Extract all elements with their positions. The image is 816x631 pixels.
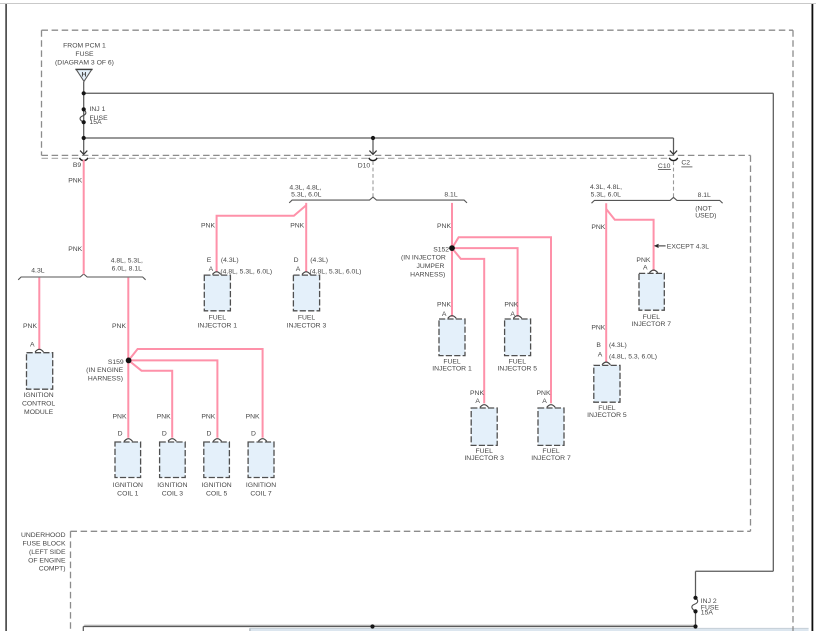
component label FUEL INJECTOR 1 (198, 315, 238, 330)
svg-text:FUEL: FUEL (209, 315, 227, 322)
svg-text:A: A (296, 266, 301, 273)
svg-text:CONTROL: CONTROL (22, 400, 55, 407)
svg-text:FROM PCM 1: FROM PCM 1 (63, 43, 106, 50)
junction dot INJ1 fuse bottom (82, 120, 86, 124)
wire: drop to D10 connector (372, 138, 374, 154)
splice label S152 (IN INJECTOR JUMPER HARNESS) (401, 246, 449, 278)
ignition control module box (27, 353, 53, 390)
svg-text:INJECTOR 1: INJECTOR 1 (198, 322, 238, 329)
pin labels E/A fuel injector 1 (207, 257, 272, 276)
svg-text:PNK: PNK (68, 246, 82, 253)
svg-text:PNK: PNK (504, 301, 518, 308)
page right border line (811, 4, 813, 631)
pin A arc ignition control module (35, 349, 43, 352)
component label IGNITION COIL 5 (201, 482, 231, 498)
svg-text:D: D (118, 431, 123, 438)
svg-text:PNK: PNK (290, 223, 304, 230)
engine label 4.3L 4.8L 5.3L 6.0L (C10 brace) (590, 184, 622, 198)
svg-text:FUEL: FUEL (298, 315, 316, 322)
svg-text:HARNESS): HARNESS) (88, 376, 123, 383)
pin arc fuel injector 1 (212, 272, 220, 275)
component label FUEL INJECTOR 5 (8.1L) (498, 358, 538, 372)
svg-text:H: H (82, 71, 87, 78)
connector C10 arrow (670, 151, 677, 155)
svg-text:A: A (598, 352, 603, 359)
junction dot INJ2 fuse bottom (693, 609, 697, 613)
svg-text:A: A (442, 311, 447, 318)
splice S152 junction dot (449, 245, 455, 251)
ignition coil 1 box (115, 442, 141, 478)
svg-text:FUEL: FUEL (443, 358, 461, 365)
svg-text:D: D (206, 431, 211, 438)
component label IGNITION COIL 3 (157, 482, 187, 498)
label UNDERHOOD FUSE BLOCK (21, 532, 66, 573)
junction dot on bottom bus (370, 624, 374, 628)
svg-text:(LEFT SIDE: (LEFT SIDE (29, 549, 66, 556)
component label FUEL INJECTOR 7 (8.1L) (531, 448, 571, 462)
svg-text:PNK: PNK (112, 323, 126, 330)
splice label S159 (IN ENGINE HARNESS) (86, 359, 124, 383)
wire PNK: S152 to fuel injector 3 (452, 248, 484, 403)
pin label C2 (underlined) (681, 159, 692, 167)
engine label 8.1L (NOT USED) (C10 brace) (695, 192, 716, 219)
label FROM PCM 1 FUSE (DIAGRAM 3 OF 6) (55, 43, 114, 67)
svg-text:FUEL: FUEL (542, 448, 560, 455)
svg-text:COIL 3: COIL 3 (162, 491, 183, 498)
svg-text:B: B (596, 342, 601, 349)
svg-text:COIL 5: COIL 5 (206, 491, 227, 498)
svg-text:PNK: PNK (470, 390, 484, 397)
wire: triangle H down to B9 connector (83, 82, 85, 154)
wire: drop to C10 connector (673, 138, 675, 154)
pin A arc fuel injector 1 (8.1L) (448, 316, 456, 319)
pin A arc fuel injector 3 (8.1L) (480, 405, 488, 408)
svg-text:INJECTOR 3: INJECTOR 3 (287, 322, 327, 329)
svg-text:FUEL: FUEL (598, 405, 616, 412)
wire PNK: S152 to fuel injector 7 (452, 237, 551, 403)
connector C10 socket arc (669, 158, 677, 161)
svg-text:USED): USED) (695, 212, 716, 219)
svg-text:15A: 15A (701, 609, 714, 616)
junction dot D10 tap (371, 136, 375, 140)
svg-text:INJECTOR 5: INJECTOR 5 (587, 412, 627, 419)
wire PNK: C10 brace down to fuel injector 5 (605, 203, 607, 362)
svg-text:(4.8L, 5.3L, 6.0L): (4.8L, 5.3L, 6.0L) (220, 269, 272, 276)
wire: INJ 2 fuse to bottom bus (695, 611, 697, 626)
svg-text:FUSE: FUSE (75, 51, 94, 58)
svg-text:PNK: PNK (437, 223, 451, 230)
junction dot INJ1 fuse top (82, 107, 86, 111)
svg-text:(4.3L): (4.3L) (221, 257, 239, 264)
node D10 dashed drop wire (372, 161, 374, 197)
svg-text:PNK: PNK (537, 390, 551, 397)
svg-text:PNK: PNK (591, 224, 605, 231)
wire PNK: D10 brace down to fuel injector 3 (305, 203, 307, 272)
page left border line (5, 4, 7, 631)
brace: C10 engine split (592, 197, 723, 203)
svg-text:(4.8L, 5.3L, 6.0L): (4.8L, 5.3L, 6.0L) (310, 269, 362, 276)
fuel injector 1 box (8.1L) (439, 319, 465, 356)
fuel injector 1 box (4.3-6.0L) (204, 275, 230, 311)
component label FUEL INJECTOR 5 (C10) (587, 405, 627, 419)
svg-text:PNK: PNK (636, 257, 650, 264)
pin A arc fuel injector 5 (8.1L) (513, 316, 521, 319)
fuse INJ 1 15A element (80, 109, 86, 122)
svg-text:INJECTOR 5: INJECTOR 5 (498, 365, 538, 372)
pin D arc ignition coil 5 (213, 439, 221, 442)
pin arc fuel injector 5 (C10 group) (602, 362, 610, 365)
component label IGNITION CONTROL MODULE (22, 392, 55, 416)
component label FUEL INJECTOR 3 (287, 315, 327, 330)
svg-text:FUEL: FUEL (476, 448, 494, 455)
pin label C10 (underlined) (658, 163, 671, 170)
svg-text:4.8L, 5.3L,: 4.8L, 5.3L, (111, 257, 143, 264)
svg-text:MODULE: MODULE (24, 409, 54, 416)
pin D arc ignition coil 1 (124, 439, 132, 442)
svg-text:INJECTOR 3: INJECTOR 3 (464, 455, 504, 462)
svg-text:COIL 7: COIL 7 (250, 491, 271, 498)
component label FUEL INJECTOR 1 (8.1L) (432, 358, 472, 372)
splice S159 junction dot (126, 358, 132, 364)
svg-text:A: A (475, 398, 480, 405)
svg-text:(4.3L): (4.3L) (310, 257, 328, 264)
svg-text:E: E (207, 257, 212, 264)
svg-text:EXCEPT 4.3L: EXCEPT 4.3L (667, 244, 709, 251)
svg-text:A: A (30, 342, 35, 349)
wire: second horizontal bus at y=138 (84, 137, 674, 139)
brace: B9 engine split (18, 274, 145, 280)
svg-text:INJECTOR 1: INJECTOR 1 (432, 365, 472, 372)
svg-text:COMPT): COMPT) (39, 566, 66, 573)
svg-text:D: D (294, 257, 299, 264)
svg-text:PNK: PNK (246, 414, 260, 421)
dashed box: underhood fuse block (70, 531, 72, 631)
page top border line (0, 3, 816, 5)
wire: horizontal jog to INJ 2 fuse (696, 570, 774, 572)
ignition coil 7 box (248, 442, 274, 478)
svg-text:FUEL: FUEL (643, 314, 661, 321)
svg-text:(4.3L): (4.3L) (609, 342, 627, 349)
svg-text:B9: B9 (73, 162, 82, 169)
svg-text:(IN ENGINE: (IN ENGINE (86, 367, 123, 374)
wire PNK: B9 connector down to engine split brace (83, 160, 85, 274)
wire PNK: S159 to ignition coil 7 (129, 349, 263, 438)
wire: top horizontal bus at y=93 to right side (84, 92, 774, 94)
power triangle H (from PCM 1 fuse) (75, 69, 92, 81)
svg-text:(IN INJECTOR: (IN INJECTOR (401, 255, 446, 262)
svg-text:PNK: PNK (591, 324, 605, 331)
component label IGNITION COIL 1 (113, 482, 143, 498)
svg-text:PNK: PNK (23, 323, 37, 330)
pin D arc ignition coil 7 (258, 439, 266, 442)
bottom fuse block bus line (83, 625, 695, 631)
svg-text:PNK: PNK (68, 177, 82, 184)
connector B9 arrow (80, 151, 87, 155)
connector B9 socket arc (80, 158, 88, 161)
label fuse INJ 1 15A (90, 106, 109, 126)
svg-text:A: A (209, 266, 214, 273)
svg-text:PNK: PNK (201, 414, 215, 421)
junction dot at y138 bus tap (82, 136, 86, 140)
ignition coil 3 box (160, 442, 186, 478)
junction dot INJ2 to bus (693, 624, 697, 628)
fuel injector 3 box (4.3-6.0L) (293, 275, 319, 311)
wire PNK: branch to fuel injector 1 (217, 205, 307, 272)
svg-text:C2: C2 (681, 159, 690, 166)
svg-text:C10: C10 (658, 163, 671, 170)
svg-text:UNDERHOOD: UNDERHOOD (21, 532, 66, 539)
svg-text:A: A (510, 311, 515, 318)
wire PNK: S152 to fuel injector 5 (452, 248, 518, 317)
fuel injector 5 box (C10 group) (594, 365, 620, 402)
svg-text:D: D (162, 431, 167, 438)
svg-text:IGNITION: IGNITION (246, 482, 276, 489)
svg-text:IGNITION: IGNITION (113, 482, 143, 489)
svg-text:PNK: PNK (437, 301, 451, 308)
svg-text:HARNESS): HARNESS) (410, 272, 445, 279)
junction dot at H bus tap (82, 91, 86, 95)
svg-text:PNK: PNK (157, 414, 171, 421)
svg-text:PNK: PNK (201, 223, 215, 230)
svg-text:FUSE BLOCK: FUSE BLOCK (22, 540, 66, 547)
engine label 4.8L 5.3L 6.0L 8.1L (left brace) (111, 257, 143, 272)
svg-text:S152: S152 (433, 246, 449, 253)
connector D10 socket arc (369, 158, 377, 161)
connector D10 arrow (369, 151, 376, 155)
bottom fuse block bus bar strip (partially visible) (250, 628, 809, 631)
svg-text:OF ENGINE: OF ENGINE (28, 557, 66, 564)
svg-text:COIL 1: COIL 1 (117, 491, 138, 498)
pin arc fuel injector 3 (302, 272, 310, 275)
svg-text:A: A (542, 398, 547, 405)
ignition coil 5 box (204, 442, 230, 478)
wire PNK: S159 to ignition coil 3 (129, 360, 173, 437)
fuse INJ 2 15A element (692, 598, 698, 612)
svg-text:8.1L: 8.1L (698, 192, 711, 199)
svg-text:5.3L, 6.0L: 5.3L, 6.0L (291, 191, 321, 198)
brace: D10 engine split (289, 197, 467, 203)
svg-text:(4.8L, 5.3, 6.0L): (4.8L, 5.3, 6.0L) (609, 353, 657, 360)
svg-text:PNK: PNK (113, 414, 127, 421)
svg-text:8.1L: 8.1L (444, 192, 457, 199)
node C10 dashed drop wire (673, 161, 675, 197)
wire PNK: branch down through S159 to ignition coil 1 (127, 278, 129, 438)
svg-text:15A: 15A (90, 119, 103, 126)
junction dot INJ2 fuse top (693, 596, 697, 600)
svg-text:D: D (251, 431, 256, 438)
svg-text:A: A (643, 264, 648, 271)
component label FUEL INJECTOR 7 (C10) (632, 314, 672, 328)
svg-text:S159: S159 (108, 359, 124, 366)
svg-text:FUEL: FUEL (509, 358, 527, 365)
pin labels D/A fuel injector 3 (294, 257, 362, 276)
fuel injector 7 box (C10 group) (639, 273, 664, 310)
wire PNK: S159 to ignition coil 5 (129, 360, 218, 437)
svg-text:JUMPER: JUMPER (416, 263, 444, 270)
svg-text:6.0L, 8.1L: 6.0L, 8.1L (112, 265, 142, 272)
svg-text:4.3L: 4.3L (31, 267, 44, 274)
svg-text:(DIAGRAM 3 OF 6): (DIAGRAM 3 OF 6) (55, 59, 114, 66)
pin A arc fuel injector 7 (8.1L) (547, 405, 555, 408)
except 4.3L pointer arrow (654, 244, 666, 248)
svg-text:4.3L, 4.8L,: 4.3L, 4.8L, (590, 184, 622, 191)
pin A arc fuel injector 7 (C10 group) (649, 270, 657, 273)
svg-text:IGNITION: IGNITION (157, 482, 187, 489)
fuel injector 7 box (8.1L) (538, 408, 564, 445)
pin labels B/A fuel injector 5 (C10) (596, 342, 657, 360)
label fuse INJ 2 15A (701, 598, 720, 617)
svg-text:INJ 1: INJ 1 (90, 106, 106, 113)
fuel injector 3 box (8.1L) (471, 408, 497, 445)
dashed box: middle harness region (42, 155, 751, 531)
svg-text:IGNITION: IGNITION (23, 392, 53, 399)
svg-text:IGNITION: IGNITION (201, 482, 231, 489)
wire PNK: branch to fuel injector 7 (606, 209, 653, 271)
component label IGNITION COIL 7 (246, 482, 276, 498)
svg-text:D10: D10 (358, 163, 371, 170)
wire: right vertical feed down to INJ 2 fuse (772, 93, 774, 571)
wire: down to INJ 2 fuse (695, 571, 697, 598)
component label FUEL INJECTOR 3 (8.1L) (464, 448, 504, 462)
wire PNK: 4.3L branch to ignition control module (38, 278, 40, 350)
pin D arc ignition coil 3 (168, 439, 176, 442)
fuel injector 5 box (8.1L) (505, 319, 531, 356)
engine label 4.3L 4.8L 5.3L 6.0L (D10 brace) (289, 185, 321, 199)
svg-text:INJECTOR 7: INJECTOR 7 (531, 455, 571, 462)
svg-text:5.3L, 6.0L: 5.3L, 6.0L (591, 192, 621, 199)
svg-text:INJECTOR 7: INJECTOR 7 (632, 321, 672, 328)
wire PNK: 8.1L brace down through S152 to fuel injector 1 (451, 203, 453, 317)
